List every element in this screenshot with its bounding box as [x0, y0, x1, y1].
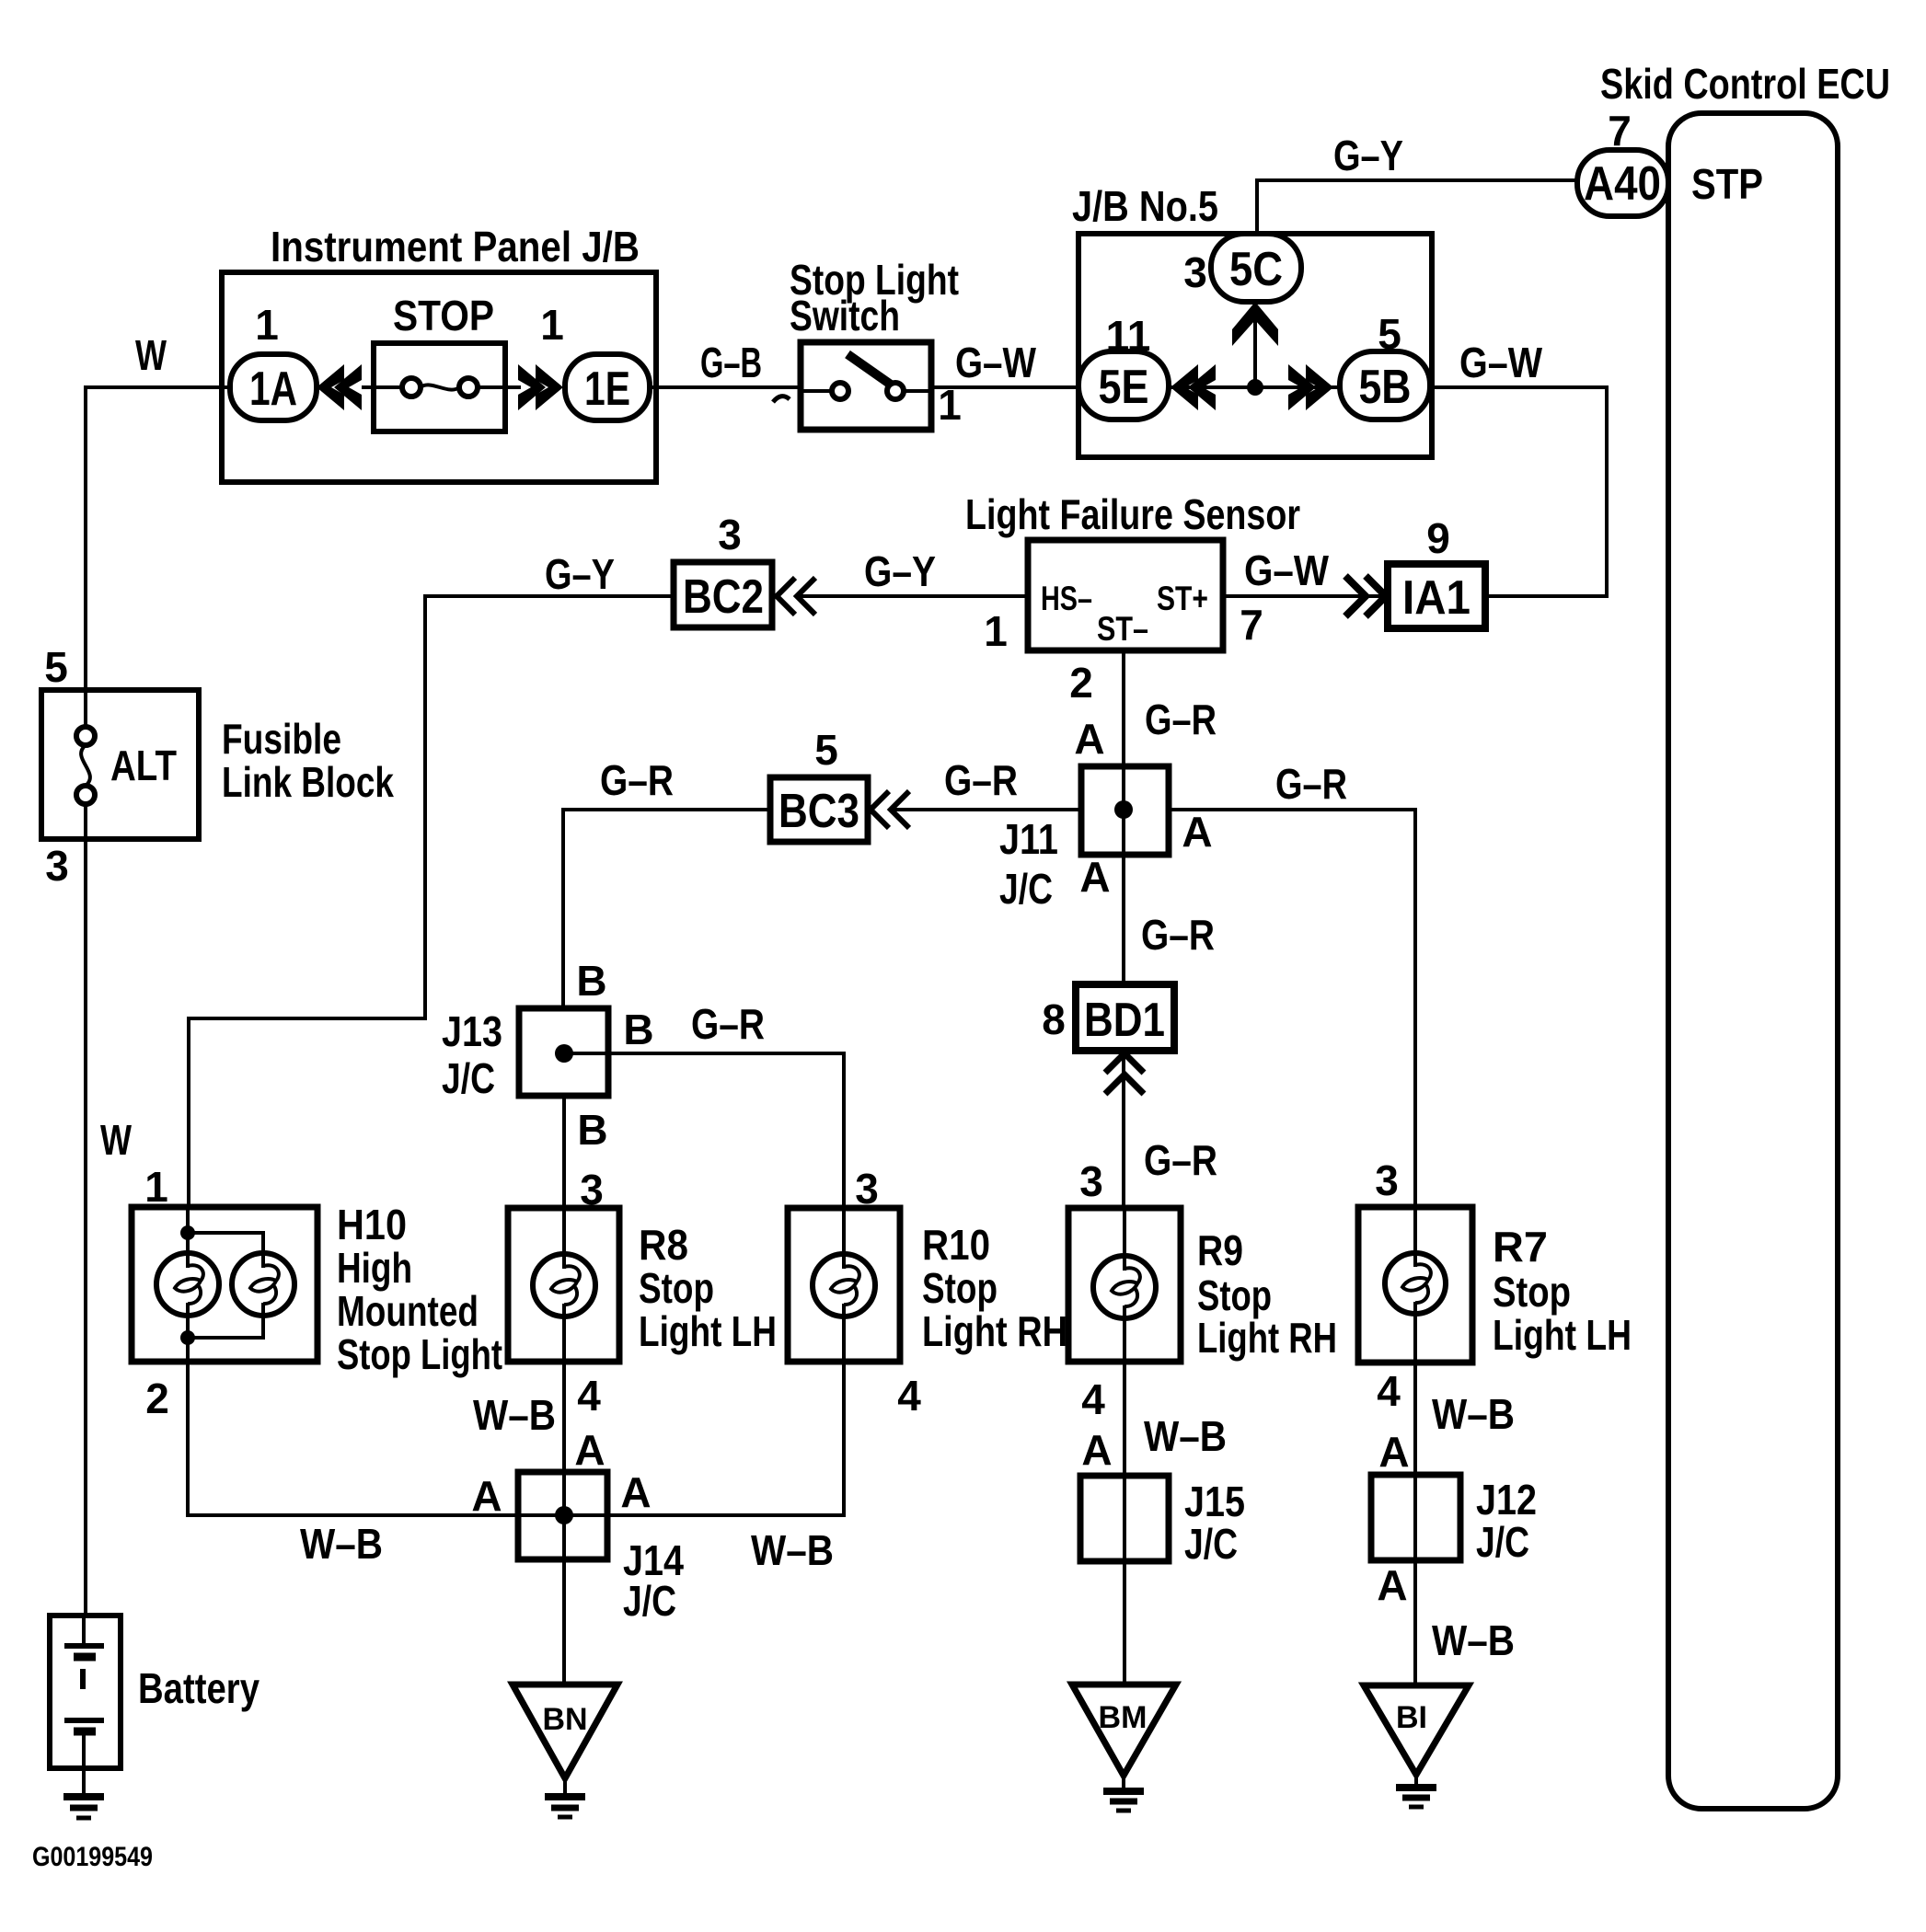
svg-text:5: 5 — [1378, 310, 1401, 358]
R7 internal wire — [1413, 1207, 1417, 1253]
bulb R9 — [1093, 1256, 1156, 1318]
svg-text:1: 1 — [540, 301, 564, 349]
svg-text:G–R: G–R — [691, 1000, 765, 1048]
battery cell plates — [64, 1616, 104, 1768]
Battery box — [50, 1616, 121, 1768]
svg-text:5C: 5C — [1229, 243, 1283, 296]
lamp R10 Stop Light RH box — [788, 1208, 900, 1362]
svg-text:3: 3 — [1079, 1157, 1103, 1205]
svg-text:ST+: ST+ — [1157, 580, 1208, 617]
svg-text:ST–: ST– — [1097, 610, 1148, 648]
svg-text:W–B: W–B — [751, 1526, 834, 1574]
svg-text:BM: BM — [1099, 1700, 1148, 1735]
svg-text:Link Block: Link Block — [222, 758, 394, 806]
svg-text:W–B: W–B — [1432, 1616, 1515, 1664]
bulb R10 — [813, 1254, 875, 1317]
Stop Light Switch box — [801, 342, 931, 430]
Stop Light Switch title — [790, 256, 959, 339]
svg-text:W–B: W–B — [473, 1391, 556, 1439]
lamp R9 Stop Light RH box — [1068, 1208, 1181, 1362]
wire BC3 left and down to J13 — [563, 810, 770, 1008]
label Fusible Link Block — [222, 715, 394, 806]
svg-text:A: A — [1182, 808, 1212, 856]
svg-text:Stop: Stop — [1493, 1268, 1571, 1316]
ground triangle BN — [513, 1685, 617, 1778]
wire J11 left to BC3 chevrons — [893, 808, 1081, 811]
svg-text:1: 1 — [984, 607, 1008, 655]
svg-text:A: A — [1081, 1426, 1112, 1474]
svg-text:J12: J12 — [1476, 1476, 1537, 1524]
svg-text:G–Y: G–Y — [1333, 132, 1403, 179]
svg-text:G–Y: G–Y — [864, 547, 936, 595]
svg-text:1: 1 — [144, 1163, 168, 1211]
label J12 J/C — [1476, 1476, 1537, 1566]
connector 5E — [1078, 351, 1169, 420]
svg-text:Light Failure Sensor: Light Failure Sensor — [965, 490, 1300, 538]
ground triangle BI — [1364, 1685, 1469, 1775]
svg-text:J/C: J/C — [442, 1054, 495, 1102]
svg-text:G–B: G–B — [700, 339, 762, 386]
wire H10 pin2 / J14 run / R10 pin4 — [188, 1362, 844, 1515]
svg-text:Skid Control ECU: Skid Control ECU — [1600, 60, 1890, 108]
svg-text:A: A — [574, 1426, 605, 1474]
wire G-Y from 5C to A40 — [1257, 180, 1577, 236]
R10 internal wire — [842, 1208, 846, 1254]
wire fusible link down to battery — [84, 839, 87, 1616]
Instrument Panel J/B box — [222, 272, 656, 482]
ground symbol BI — [1396, 1775, 1436, 1807]
svg-text:HS–: HS– — [1041, 580, 1092, 617]
svg-text:W: W — [135, 331, 167, 379]
wire 1E to switch — [650, 385, 801, 389]
svg-text:A: A — [1074, 715, 1104, 763]
svg-text:G–R: G–R — [1141, 911, 1215, 959]
label R8 Stop Light LH — [639, 1221, 777, 1355]
junction dot H10 top — [180, 1225, 195, 1240]
label J13 J/C — [442, 1007, 502, 1102]
chevrons into BC3 — [871, 791, 909, 828]
svg-text:1: 1 — [255, 301, 279, 349]
label J15 J/C — [1184, 1478, 1245, 1568]
svg-text:Stop Light: Stop Light — [337, 1330, 502, 1378]
svg-text:BD1: BD1 — [1084, 994, 1165, 1047]
bulb R7 — [1385, 1253, 1446, 1314]
junction dot (J/B No.5) — [1247, 379, 1263, 396]
svg-text:7: 7 — [1608, 107, 1632, 155]
svg-text:Stop: Stop — [922, 1264, 998, 1312]
arrow up toward 5C — [1232, 302, 1278, 346]
svg-text:7: 7 — [1240, 601, 1263, 649]
svg-text:R9: R9 — [1197, 1226, 1243, 1274]
svg-text:2: 2 — [145, 1374, 169, 1422]
svg-text:Light LH: Light LH — [639, 1307, 777, 1355]
junction connector J11 box — [1081, 766, 1169, 855]
lamp R7 Stop Light LH box — [1358, 1207, 1472, 1363]
svg-text:5: 5 — [44, 643, 68, 691]
svg-text:A40: A40 — [1584, 157, 1661, 211]
label H10 High Mounted Stop Light — [337, 1201, 502, 1378]
svg-text:Light RH: Light RH — [1197, 1314, 1337, 1362]
svg-text:BN: BN — [542, 1702, 587, 1737]
svg-text:W–B: W–B — [300, 1520, 383, 1568]
R9 internal wire — [1123, 1208, 1126, 1256]
svg-text:ALT: ALT — [110, 742, 177, 789]
svg-text:8: 8 — [1042, 995, 1066, 1043]
junction connector J13 box — [519, 1008, 608, 1096]
chevrons into IA1 — [1345, 576, 1386, 616]
label J11 J/C — [999, 815, 1058, 913]
svg-text:J/C: J/C — [1476, 1518, 1529, 1566]
svg-text:J/C: J/C — [623, 1577, 676, 1625]
svg-text:G–R: G–R — [600, 756, 674, 804]
wire J11 down to BD1 — [1122, 855, 1125, 984]
svg-text:H10: H10 — [337, 1201, 407, 1248]
svg-text:J15: J15 — [1184, 1478, 1245, 1525]
svg-text:B: B — [576, 957, 606, 1005]
svg-text:Instrument Panel J/B: Instrument Panel J/B — [271, 223, 640, 270]
wire 5E to 5B — [1169, 385, 1340, 389]
connector BC2 — [674, 562, 772, 627]
svg-text:A: A — [471, 1472, 502, 1520]
label R7 Stop Light LH — [1493, 1223, 1632, 1359]
connector BD1 — [1076, 984, 1174, 1051]
svg-text:W–B: W–B — [1144, 1412, 1227, 1460]
R8 internal wire — [562, 1208, 566, 1254]
svg-text:Light RH: Light RH — [922, 1307, 1067, 1355]
svg-text:R7: R7 — [1493, 1223, 1548, 1271]
wire sensor to IA1 — [1223, 594, 1388, 598]
svg-text:A: A — [1378, 1428, 1409, 1476]
svg-text:5B: 5B — [1359, 361, 1412, 414]
wire BD1 down to R9 — [1122, 1054, 1125, 1208]
svg-text:3: 3 — [718, 511, 742, 558]
wire R8 pin4 down through J14 to BN — [562, 1362, 566, 1685]
bulb R8 — [533, 1254, 595, 1317]
svg-text:J13: J13 — [442, 1007, 502, 1055]
chevrons up below BD1 — [1105, 1053, 1144, 1094]
svg-text:4: 4 — [577, 1372, 601, 1420]
lamp H10 High Mounted Stop Light box — [132, 1207, 317, 1362]
svg-text:A: A — [1377, 1561, 1407, 1609]
svg-text:R8: R8 — [639, 1221, 688, 1269]
svg-text:1A: 1A — [249, 362, 297, 416]
lamp R8 Stop Light LH box — [508, 1208, 619, 1362]
svg-text:IA1: IA1 — [1402, 571, 1470, 625]
svg-text:G–W: G–W — [1244, 546, 1330, 594]
svg-text:J/C: J/C — [1184, 1520, 1238, 1568]
Light Failure Sensor box — [1028, 540, 1223, 650]
label R9 Stop Light RH — [1197, 1226, 1337, 1362]
svg-text:G00199549: G00199549 — [32, 1842, 153, 1872]
svg-text:4: 4 — [1081, 1375, 1105, 1423]
arrow double chevron left toward 1A — [317, 364, 344, 410]
fuse STOP element — [362, 378, 521, 397]
svg-text:G–W: G–W — [1459, 339, 1542, 386]
svg-text:G–W: G–W — [955, 339, 1036, 386]
svg-text:STOP: STOP — [393, 292, 494, 339]
wire sensor to BC2 — [796, 594, 1028, 598]
svg-text:R10: R10 — [922, 1221, 990, 1269]
junction dot H10 bottom — [180, 1330, 195, 1345]
ground triangle BM — [1072, 1685, 1176, 1776]
pin number 2 (switch, partial scan mark) — [773, 397, 790, 402]
connector 5C — [1211, 234, 1301, 302]
svg-text:4: 4 — [897, 1372, 921, 1420]
wire 5C down to junction — [1253, 302, 1257, 387]
connector 1E — [565, 354, 650, 420]
svg-text:BC3: BC3 — [778, 785, 859, 838]
svg-text:3: 3 — [45, 842, 69, 890]
svg-text:B: B — [577, 1106, 607, 1154]
svg-text:W–B: W–B — [1432, 1390, 1515, 1438]
wire 5B right, down, left into IA1 — [1430, 387, 1607, 596]
svg-text:Switch: Switch — [790, 292, 900, 339]
svg-text:G–Y: G–Y — [545, 550, 615, 598]
wire J13 down to R8 — [562, 1096, 566, 1208]
junction dot J11 — [1114, 800, 1133, 819]
svg-text:1E: 1E — [584, 362, 630, 416]
svg-text:4: 4 — [1377, 1367, 1401, 1415]
svg-text:W: W — [100, 1116, 132, 1164]
svg-text:J/B No.5: J/B No.5 — [1072, 182, 1218, 230]
svg-text:9: 9 — [1426, 514, 1450, 562]
fuse STOP box — [374, 343, 505, 431]
svg-text:Light LH: Light LH — [1493, 1311, 1632, 1359]
wire J13 right to R10 — [564, 1053, 844, 1208]
svg-text:3: 3 — [1183, 248, 1207, 296]
svg-text:BI: BI — [1396, 1700, 1427, 1735]
junction block J/B No.5 box — [1078, 234, 1432, 457]
connector A40 — [1577, 150, 1668, 216]
ground symbol BN — [545, 1778, 585, 1817]
connector IA1 — [1388, 564, 1485, 628]
svg-text:Battery: Battery — [138, 1664, 259, 1712]
svg-text:Fusible: Fusible — [222, 715, 341, 763]
wire R9 pin4 down through J15 to BM — [1123, 1362, 1126, 1685]
wire sensor pin 2 down to J11 — [1122, 650, 1125, 855]
label R10 Stop Light RH — [922, 1221, 1067, 1355]
svg-text:A: A — [1079, 853, 1110, 901]
svg-text:STP: STP — [1691, 160, 1763, 208]
junction dot J13 — [555, 1044, 573, 1063]
svg-text:5: 5 — [814, 726, 838, 774]
switch contacts and lever — [801, 354, 931, 399]
junction connector J12 box — [1371, 1475, 1460, 1560]
svg-text:G–R: G–R — [1144, 1136, 1217, 1184]
ground symbol battery — [63, 1768, 104, 1818]
svg-text:5E: 5E — [1099, 361, 1149, 414]
svg-text:11: 11 — [1106, 312, 1151, 360]
Skid Control ECU body — [1668, 113, 1838, 1809]
connector BC3 — [770, 777, 868, 842]
junction connector J15 box — [1080, 1476, 1169, 1561]
svg-text:Mounted: Mounted — [337, 1287, 479, 1335]
svg-text:A: A — [620, 1468, 651, 1516]
svg-text:Stop: Stop — [1197, 1271, 1272, 1319]
bulb H10 left — [156, 1253, 219, 1316]
ground symbol BM — [1103, 1776, 1144, 1811]
arrow double chevron right toward 1E — [536, 364, 563, 410]
wire R7 pin4 down through J12 to BI — [1413, 1363, 1417, 1685]
svg-text:B: B — [623, 1006, 653, 1053]
fusible link ALT element — [76, 690, 95, 839]
svg-text:2: 2 — [1069, 659, 1093, 707]
chevrons into BC2 — [777, 578, 815, 615]
H10 internal wiring — [188, 1207, 263, 1362]
wire W: left edge to 1A — [86, 387, 231, 692]
wire J11 right to R7 — [1169, 810, 1415, 1207]
svg-text:J11: J11 — [999, 815, 1058, 863]
label J14 J/C — [623, 1536, 684, 1625]
svg-text:J/C: J/C — [999, 865, 1053, 913]
wire BC2 left and down to H10 — [189, 596, 674, 1207]
svg-text:Stop: Stop — [639, 1264, 714, 1312]
connector 5B — [1340, 351, 1430, 420]
Fusible Link Block box — [41, 690, 199, 839]
arrow double chevron left toward 5E — [1171, 364, 1198, 410]
svg-text:G–R: G–R — [1145, 696, 1217, 743]
svg-text:BC2: BC2 — [683, 570, 764, 624]
wire switch to 5E — [931, 385, 1078, 389]
svg-text:G–R: G–R — [1275, 760, 1347, 808]
junction connector J14 box — [518, 1472, 607, 1559]
junction dot J14 — [555, 1506, 573, 1524]
svg-text:3: 3 — [1375, 1156, 1399, 1204]
connector 1A — [230, 354, 317, 420]
svg-text:High: High — [337, 1244, 412, 1292]
arrow chevron right toward 5B — [1306, 364, 1333, 410]
svg-text:G–R: G–R — [944, 756, 1018, 804]
bulb H10 right — [232, 1253, 294, 1316]
